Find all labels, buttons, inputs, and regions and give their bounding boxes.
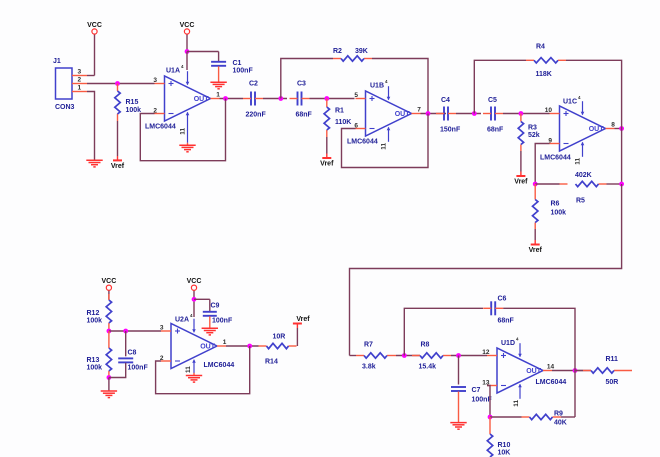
svg-text:68nF: 68nF: [296, 112, 313, 119]
op-amp U1D: [482, 337, 566, 407]
svg-text:Vref: Vref: [296, 316, 310, 323]
label R11 value: [606, 379, 619, 386]
capacitor C3: [290, 92, 310, 106]
svg-text:4: 4: [181, 64, 184, 69]
svg-text:39K: 39K: [355, 48, 368, 55]
svg-text:R7: R7: [364, 342, 373, 349]
capacitor C4: [436, 107, 456, 121]
wire U1C out: [615, 128, 622, 130]
svg-text:C5: C5: [488, 97, 497, 104]
svg-text:OUT: OUT: [200, 344, 216, 351]
svg-text:100k: 100k: [126, 107, 142, 114]
node U1C out: [619, 126, 624, 131]
resistor R2: [341, 56, 364, 61]
capacitor C5: [483, 107, 503, 121]
svg-text:100nF: 100nF: [128, 365, 149, 372]
label R6 value: [551, 210, 567, 217]
node R5 right: [619, 182, 624, 187]
svg-text:OUT: OUT: [589, 126, 605, 133]
wire C6-R9 vertical: [574, 363, 576, 417]
svg-text:4: 4: [190, 313, 193, 318]
wire to ground U2A block: [108, 378, 110, 392]
node U1B out: [426, 111, 431, 116]
svg-text:LMC6044: LMC6044: [540, 155, 571, 162]
label C6: [498, 296, 507, 303]
resistor R3 leads: [520, 114, 522, 152]
wire C6 left: [404, 308, 483, 355]
svg-text:100k: 100k: [87, 365, 103, 372]
resistor R10 leads: [489, 417, 491, 434]
svg-text:4: 4: [385, 79, 388, 84]
resistor R8: [420, 353, 443, 358]
resistor R15: [115, 91, 120, 114]
resistor R5 leads: [560, 183, 607, 185]
svg-text:U1A: U1A: [166, 68, 180, 75]
svg-text:R10: R10: [498, 442, 511, 449]
power Vref R6: [529, 245, 543, 255]
wire R15 to Vref: [117, 121, 119, 156]
op-amp U1A: [145, 64, 220, 143]
wire R4 left: [474, 60, 526, 113]
wire R2 right: [372, 59, 428, 114]
svg-text:C8: C8: [128, 350, 137, 357]
lead U2A pin11 to ground: [193, 373, 195, 376]
svg-text:LMC6044: LMC6044: [145, 124, 176, 131]
svg-text:50R: 50R: [606, 379, 619, 386]
op-amp U2A: [160, 313, 234, 373]
capacitor C6: [483, 301, 503, 315]
wire VCC4 down: [193, 290, 195, 317]
resistor R7 leads: [356, 355, 396, 357]
wire C7 top: [458, 356, 460, 385]
label R7: [364, 342, 373, 349]
lead C9 to ground: [209, 316, 211, 328]
label C9 value: [212, 318, 233, 325]
capacitor C8: [118, 358, 133, 362]
resistor R12: [106, 300, 111, 323]
wire C3 to U1B: [310, 98, 355, 100]
svg-text:R2: R2: [333, 48, 342, 55]
wire U1C to stage4: [350, 184, 622, 356]
svg-text:R8: R8: [421, 342, 430, 349]
svg-text:100k: 100k: [551, 210, 567, 217]
label R1 value: [335, 119, 351, 126]
resistor R12 leads: [108, 294, 110, 331]
label CON3: [55, 104, 75, 111]
svg-text:U1C: U1C: [563, 99, 577, 106]
svg-text:11: 11: [185, 366, 192, 373]
wire C8 top lead: [125, 331, 127, 356]
power VCC3: [102, 278, 117, 290]
label R4: [536, 44, 545, 51]
lead R15 Vref: [117, 156, 119, 160]
label R10 value: [498, 450, 511, 457]
resistor R8 leads: [412, 355, 451, 357]
label R2: [333, 48, 342, 55]
svg-text:C2: C2: [249, 81, 258, 88]
svg-text:U1B: U1B: [370, 83, 384, 90]
svg-text:R15: R15: [126, 99, 139, 106]
svg-text:2: 2: [78, 77, 82, 84]
svg-text:7: 7: [417, 107, 421, 114]
power Vref R3: [514, 176, 528, 186]
wire R5 right: [607, 183, 622, 185]
svg-text:VCC: VCC: [187, 278, 202, 285]
svg-text:R13: R13: [87, 357, 100, 364]
node R5-R6: [533, 182, 538, 187]
capacitor C2: [243, 92, 263, 106]
svg-text:C7: C7: [472, 387, 481, 394]
wire VCC2 to C1: [187, 51, 219, 53]
svg-text:1: 1: [216, 92, 220, 99]
resistor R6: [533, 200, 538, 223]
pin 1 of J1: [72, 85, 87, 92]
node C5-R3: [519, 111, 524, 116]
label R3 value: [528, 132, 540, 139]
node U1A out: [223, 96, 228, 101]
lead U1A pin11 to ground: [187, 143, 189, 145]
svg-text:Vref: Vref: [529, 247, 543, 254]
svg-text:CON3: CON3: [55, 104, 75, 111]
svg-text:15.4k: 15.4k: [419, 364, 437, 371]
svg-text:LMC6044: LMC6044: [204, 362, 235, 369]
power Vref R14: [293, 316, 310, 324]
capacitor C9: [203, 312, 217, 316]
wire J1 pin2 to U1A: [87, 83, 155, 85]
label C1: [233, 60, 242, 67]
label R10: [498, 442, 511, 449]
resistor R11 leads: [583, 370, 632, 372]
svg-text:R1: R1: [335, 108, 344, 115]
ground below R13: [101, 391, 117, 398]
label C7 value: [472, 397, 493, 404]
wire C4 to C5: [456, 113, 481, 115]
svg-text:OUT: OUT: [526, 368, 542, 375]
svg-text:11: 11: [381, 143, 388, 150]
resistor R4 leads: [526, 59, 566, 61]
label C8 value: [128, 365, 149, 372]
label C8: [128, 350, 137, 357]
label R2 value: [355, 48, 368, 55]
label C3 value: [296, 112, 313, 119]
lead R6 Vref: [534, 240, 536, 245]
svg-text:J1: J1: [53, 58, 61, 65]
svg-text:R3: R3: [528, 125, 537, 132]
capacitor C1: [211, 62, 226, 66]
resistor R13: [106, 348, 111, 371]
resistor R4: [534, 58, 558, 63]
wire R5 left: [535, 183, 559, 185]
lead R14 Vref: [296, 324, 298, 329]
resistor R1 leads: [326, 99, 328, 138]
svg-text:11: 11: [575, 158, 582, 165]
svg-text:12: 12: [482, 349, 490, 356]
wire to U2A pin3: [109, 330, 161, 332]
svg-text:U2A: U2A: [175, 317, 189, 324]
wire U1C out down: [621, 121, 623, 184]
wire R1 to Vref: [326, 137, 328, 154]
label R6: [551, 201, 560, 208]
svg-text:10R: 10R: [273, 334, 286, 341]
svg-text:220nF: 220nF: [246, 112, 267, 119]
label C9: [211, 303, 220, 310]
label R14: [265, 359, 278, 366]
wire U1A feedback: [140, 99, 225, 161]
label C2: [249, 81, 258, 88]
ground below C7: [450, 423, 466, 430]
label C5 value: [487, 127, 504, 134]
wire J1 pin3 to VCC: [87, 75, 95, 77]
svg-text:LMC6044: LMC6044: [347, 139, 378, 146]
power Vref R15: [111, 160, 125, 170]
svg-text:10: 10: [545, 107, 553, 114]
wire R8 to U1D: [451, 355, 487, 357]
node R12-R13: [107, 329, 112, 334]
svg-text:4: 4: [578, 95, 581, 100]
resistor R6 leads: [534, 184, 536, 229]
node R13-C8: [107, 375, 112, 380]
svg-text:52k: 52k: [528, 132, 540, 139]
wire C6 right: [503, 308, 575, 363]
svg-text:R4: R4: [536, 44, 545, 51]
wire U1D out: [552, 370, 591, 372]
svg-text:11: 11: [180, 128, 187, 135]
resistor R3: [518, 122, 523, 145]
ground below J1: [86, 160, 102, 167]
node R9-R10: [488, 415, 493, 420]
label C2 value: [246, 112, 267, 119]
label C1 value: [233, 68, 254, 75]
label R11: [606, 356, 619, 363]
label C7: [472, 387, 481, 394]
wire VCC4 to C9: [194, 298, 210, 300]
pin 2 of J1: [72, 77, 87, 84]
svg-text:LMC6044: LMC6044: [536, 379, 567, 386]
node U2A out: [247, 344, 252, 349]
svg-text:4: 4: [516, 337, 519, 342]
label J1: [53, 58, 61, 65]
svg-text:68nF: 68nF: [498, 318, 515, 325]
lead R3 Vref: [520, 172, 522, 177]
resistor R2 leads: [333, 58, 372, 60]
resistor R11: [591, 368, 614, 373]
svg-text:R6: R6: [551, 201, 560, 208]
resistor R15 leads: [117, 84, 119, 122]
label C4: [441, 97, 450, 104]
svg-text:3: 3: [78, 69, 82, 76]
connector J1: [56, 68, 73, 99]
svg-text:40K: 40K: [554, 420, 567, 427]
resistor R5: [576, 181, 599, 186]
svg-text:10K: 10K: [498, 450, 511, 457]
svg-text:R14: R14: [265, 359, 278, 366]
resistor R14: [267, 343, 289, 348]
ground below U1A: [179, 145, 195, 152]
svg-text:118K: 118K: [536, 71, 552, 78]
svg-text:C9: C9: [211, 303, 220, 310]
svg-text:OUT: OUT: [194, 96, 210, 103]
label C6 value: [498, 318, 515, 325]
svg-text:100nF: 100nF: [233, 68, 254, 75]
wire VCC2 to U1A pin4: [186, 52, 188, 71]
node C4-C5: [472, 111, 477, 116]
ground below U2A: [186, 376, 202, 383]
svg-text:5: 5: [354, 92, 358, 99]
wire U2A feedback: [156, 346, 250, 394]
svg-text:150nF: 150nF: [440, 127, 461, 134]
svg-text:3.8k: 3.8k: [362, 364, 376, 371]
wire R14 to Vref: [296, 328, 298, 346]
label R9 value: [554, 420, 567, 427]
wire U1D pin13: [487, 386, 490, 418]
resistor R13 leads: [108, 331, 110, 378]
wire U1A out: [220, 98, 244, 100]
label R14 value: [273, 334, 286, 341]
svg-text:402K: 402K: [575, 172, 592, 179]
svg-text:14: 14: [547, 364, 555, 371]
wire U1C pin9: [535, 144, 549, 185]
label R3: [528, 125, 537, 132]
resistor R1: [324, 107, 329, 130]
label R12: [87, 310, 100, 317]
label R13: [87, 357, 100, 364]
svg-text:100nF: 100nF: [212, 318, 233, 325]
wire U2A out: [226, 345, 259, 347]
node C8 top: [123, 329, 128, 334]
svg-text:U1D: U1D: [501, 340, 515, 347]
svg-text:C4: C4: [441, 97, 450, 104]
svg-text:R5: R5: [576, 198, 585, 205]
power VCC1: [87, 22, 102, 34]
wire R7 to R8: [396, 355, 420, 357]
svg-text:8: 8: [611, 122, 615, 129]
label R12 value: [87, 318, 103, 325]
wire VCC1 to J1 pin3: [94, 34, 96, 75]
node VCC2-C1: [185, 49, 190, 54]
node VCC4-C9: [192, 297, 197, 302]
op-amp U1B: [347, 79, 421, 150]
wire R2 left: [281, 59, 333, 99]
resistor R9 leads: [522, 416, 562, 418]
wire C9 top: [209, 299, 211, 311]
wire VCC3 down: [108, 290, 110, 299]
label C4 value: [440, 127, 461, 134]
svg-text:VCC: VCC: [180, 22, 195, 29]
label R13 value: [87, 365, 103, 372]
svg-text:3: 3: [160, 325, 164, 332]
svg-text:OUT: OUT: [395, 111, 411, 118]
op-amp U1C: [540, 95, 615, 165]
label R15: [126, 99, 139, 106]
label R1: [335, 108, 344, 115]
wire U1B out: [421, 113, 447, 115]
resistor R14 leads: [259, 345, 297, 347]
node U1D out: [573, 368, 578, 373]
capacitor C7: [451, 387, 466, 391]
ground below C9: [202, 328, 218, 335]
resistor R9: [530, 414, 553, 419]
wire R9 left: [490, 416, 522, 418]
svg-text:C6: C6: [498, 296, 507, 303]
label R9: [554, 411, 563, 418]
wire U1B feedback: [342, 114, 429, 168]
svg-text:110K: 110K: [335, 119, 351, 126]
wire R3 to Vref: [520, 151, 522, 172]
wire R9 right: [561, 416, 575, 418]
label R4 value: [536, 71, 552, 78]
wire C5 to U1C: [503, 113, 550, 115]
svg-text:68nF: 68nF: [487, 127, 504, 134]
power Vref R1: [320, 158, 334, 168]
node C2-C3: [278, 96, 283, 101]
wire R4 right: [566, 60, 622, 121]
wire VCC2 down: [186, 34, 188, 51]
svg-text:1: 1: [223, 339, 227, 346]
pin 3 of J1: [72, 69, 87, 76]
node J1-R15: [115, 81, 120, 86]
svg-text:C1: C1: [233, 60, 242, 67]
power VCC2: [180, 22, 195, 34]
resistor R10: [487, 434, 492, 457]
label R15 value: [126, 107, 142, 114]
svg-text:R12: R12: [87, 310, 100, 317]
ground below C1: [210, 82, 226, 89]
wire C2 to C3: [263, 98, 287, 100]
svg-text:VCC: VCC: [87, 22, 102, 29]
wire R7 left: [350, 355, 357, 357]
label R8 value: [419, 364, 437, 371]
resistor R7: [364, 353, 387, 358]
node R8-C7: [456, 353, 461, 358]
label R5: [576, 198, 585, 205]
lead R1 Vref: [326, 154, 328, 159]
lead C1 to ground: [218, 66, 220, 82]
label R7 value: [362, 364, 376, 371]
wire C8 bottom: [109, 363, 126, 378]
wire C1 top: [218, 52, 220, 62]
svg-text:Vref: Vref: [111, 163, 125, 170]
label R8: [421, 342, 430, 349]
lead C7 to ground: [458, 392, 460, 423]
svg-text:R11: R11: [606, 356, 619, 363]
node C3-R1: [324, 96, 329, 101]
node R7-R8: [402, 353, 407, 358]
svg-text:3: 3: [153, 77, 157, 84]
svg-text:Vref: Vref: [514, 179, 528, 186]
label R5 value: [575, 172, 592, 179]
svg-text:11: 11: [513, 400, 520, 407]
power VCC4: [187, 278, 202, 290]
label C3: [297, 81, 306, 88]
label C5: [488, 97, 497, 104]
svg-text:Vref: Vref: [320, 161, 334, 168]
wire R6 to Vref: [534, 229, 536, 240]
svg-text:100k: 100k: [87, 318, 103, 325]
svg-text:C3: C3: [297, 81, 306, 88]
wire J1 pin1 to ground: [87, 92, 95, 161]
svg-text:VCC: VCC: [102, 278, 117, 285]
svg-text:1: 1: [78, 85, 82, 92]
wire R11 left: [575, 370, 583, 372]
